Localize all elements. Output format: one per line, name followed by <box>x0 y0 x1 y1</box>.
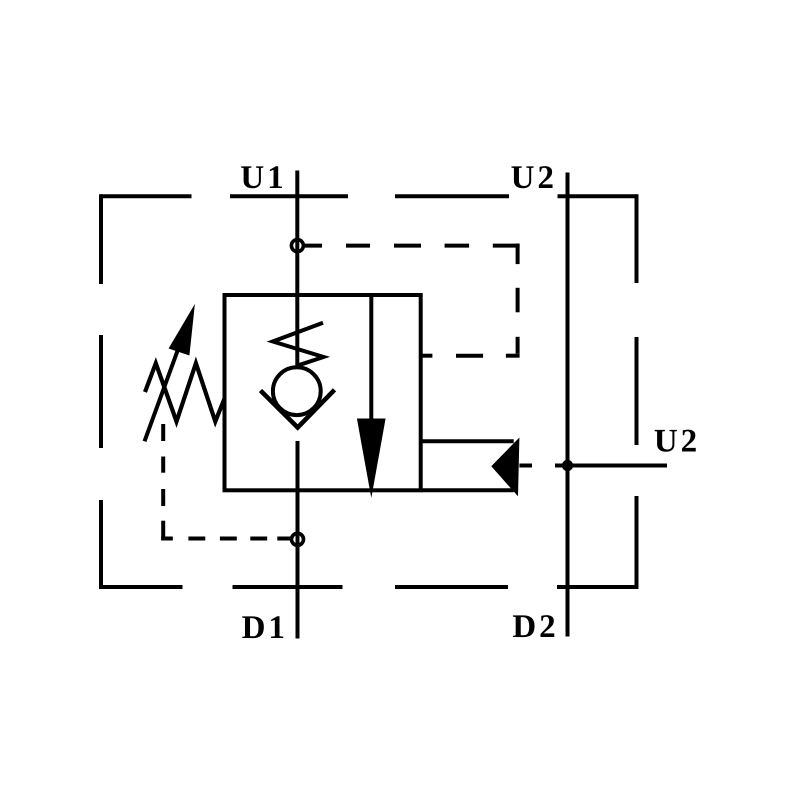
label port D1 <box>242 616 283 638</box>
enclosure boundary bottom (long-dashed) <box>101 585 637 589</box>
enclosure boundary top (long-dashed) <box>101 194 637 198</box>
relief poppet ball <box>273 367 321 415</box>
relief poppet seat (V) <box>261 390 335 428</box>
flow path arrow inside valve (shaft) <box>369 295 373 420</box>
adjustment arrow (shaft) <box>145 344 181 441</box>
enclosure boundary right (long-dashed) <box>635 194 639 589</box>
pilot line into valve right side (dashed, horizontal) <box>421 354 520 358</box>
relief poppet spring (zigzag inside valve) <box>273 323 324 366</box>
flow path arrow inside valve (head) <box>357 419 386 499</box>
check valve CV1 poppet (filled triangle) <box>491 438 519 497</box>
check valve CV1 lower line <box>421 488 514 492</box>
adjustment spring (zigzag, setting spring) <box>145 363 225 421</box>
adjustment arrow (head) <box>169 304 195 356</box>
label port D2 <box>513 615 554 637</box>
wire U2 side port (horizontal line) <box>555 464 667 468</box>
check valve CV1 upper line <box>421 439 514 443</box>
wire port U1 to valve inlet (vertical line) <box>295 171 299 391</box>
pilot drain line from spring (dashed, vertical left) <box>161 424 165 541</box>
wire valve outlet to port D1 (vertical line) <box>296 441 300 639</box>
enclosure boundary left (long-dashed) <box>99 194 103 589</box>
valve body V1 (envelope square) <box>225 295 421 490</box>
pilot line (dashed, vertical right) <box>516 244 520 354</box>
node A (pilot tap, circle on U1 line) <box>291 240 303 252</box>
label port U1 <box>241 166 282 188</box>
label port U2 (right side) <box>655 430 696 452</box>
pilot line from node A to spring chamber (dashed, horizontal top) <box>304 244 520 248</box>
wire port U2 to port D2 (vertical line) <box>566 173 570 637</box>
wire check valve to U2 line (stub) <box>519 464 532 468</box>
node B (drain tap, circle on D1 line) <box>292 533 304 545</box>
label port U2 (top) <box>511 166 552 188</box>
junction dot on U2 line <box>562 460 573 471</box>
pilot drain line to node B (dashed, horizontal bottom) <box>161 537 292 541</box>
